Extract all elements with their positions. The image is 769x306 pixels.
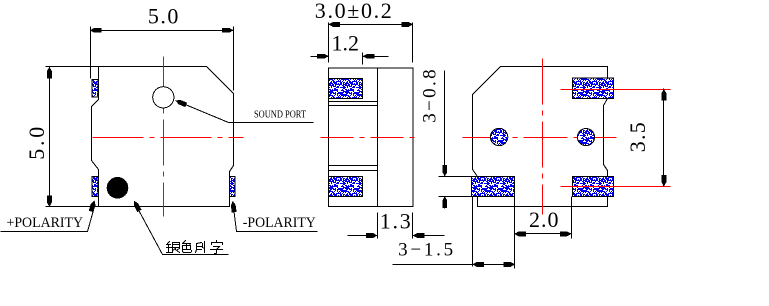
silver printing label 银色印字 leader [134,201,229,255]
sound port leader [176,100,314,123]
svg-text:-POLARITY: -POLARITY [243,215,316,231]
svg-text:3−0.8: 3−0.8 [420,69,441,122]
side view pad bottom [329,177,363,197]
pad P1 top-left (top view) [92,80,98,98]
bottom view horizontal centerline [463,137,617,139]
glyph zi [211,241,223,254]
top view vertical centerline [163,57,165,217]
polarity mark dot [107,177,129,199]
top view body outline [92,67,234,207]
pad centerline bottom-right [561,186,671,188]
side view band lines above bottom pad [329,166,378,171]
glyph yin [167,242,172,253]
svg-text:5.0: 5.0 [148,3,179,28]
svg-text:+POLARITY: +POLARITY [7,215,84,231]
-POLARITY leader [231,201,318,232]
silver printing label glyphs [167,241,223,254]
dimension 5.0 horizontal [90,27,234,91]
pad P3 bottom-right (top view) [230,177,236,197]
pad P2 bottom-left (top view) [92,177,98,197]
hole H1 [490,128,507,145]
side view pad top [329,79,363,99]
pad centerline top-right [561,89,671,91]
dimension 2.0 [514,197,571,269]
bottom view outline [473,67,608,207]
dimension 1.3 [348,213,445,239]
svg-text:1.3: 1.3 [380,208,411,233]
bottom view pad bottom-left [472,176,515,196]
dimension 3.5 [662,89,667,187]
side view band lines below top pad [329,102,378,106]
dimension 5.0 vertical [46,67,99,207]
dimension 3-0.8 [439,71,472,209]
glyph se [183,241,192,253]
bottom view pad bottom-right [572,176,613,196]
bottom view vertical centerline [542,59,544,215]
svg-text:5.0: 5.0 [24,127,49,160]
dimension 3-1.5 [393,197,515,267]
sound port hole [153,87,174,108]
top view horizontal centerline [93,137,244,139]
svg-text:3−1.5: 3−1.5 [398,240,453,261]
svg-text:SOUND PORT: SOUND PORT [254,110,306,121]
side view outline [329,68,413,207]
svg-text:3.5: 3.5 [625,122,650,152]
svg-text:2.0: 2.0 [529,207,559,232]
side view internal line [377,69,379,207]
hole H2 [577,129,594,146]
side view horizontal centerline [321,137,421,139]
dimension 3.0±0.2 [329,22,413,63]
+POLARITY leader [1,201,96,232]
bottom view pad top-right [572,78,613,98]
dimension 1.2 [311,53,389,65]
svg-text:1.2: 1.2 [332,31,360,56]
svg-text:3.0±0.2: 3.0±0.2 [315,0,392,23]
glyph yin2 [196,243,202,253]
